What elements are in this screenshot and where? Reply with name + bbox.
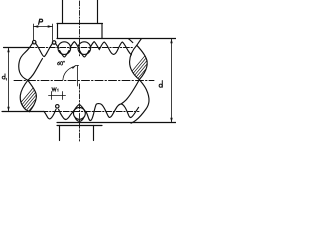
60-degree arc arrowhead (72, 66, 76, 69)
crest cap circle (x=54) (52, 41, 56, 45)
d arrows (170, 39, 172, 123)
lower ball (74, 108, 86, 120)
screw axis (dash-dot) (14, 80, 154, 82)
d dimension line (right) (171, 39, 173, 123)
right rib section: edge B (from bore line through lens left side and down to lower crest) (121, 39, 141, 104)
bottom return-channel stub: shoulder (57, 125, 102, 127)
nut crest over lower ball (73, 104, 86, 112)
W1 dimension line (49, 95, 66, 97)
groove arc under ball 1 (60, 51, 70, 57)
top return-channel stub: wide right wall (101, 24, 103, 39)
top return-channel stub: narrow left wall (62, 0, 64, 24)
lower ball vertical centerline (79, 84, 81, 141)
bottom return-channel stub: right leg (93, 126, 95, 141)
label P (39, 19, 43, 24)
label 60 degrees (57, 62, 59, 65)
lower thread wave (44, 104, 139, 121)
right rib section: edge A (from bore line through lens right side and down as bulge to bottom line) (128, 39, 149, 124)
lower crest cap circle (x=57.3) (56, 105, 60, 109)
label d1 (left) (2, 74, 6, 80)
minor-diameter extension line top left (y=47) (4, 47, 31, 49)
P dimension: left extension (33, 24, 35, 40)
top return-channel stub: wide left wall (57, 24, 59, 39)
label d (right) (159, 81, 162, 88)
left rib section: outer edge (from crest through axis to lens right side) (28, 80, 37, 111)
left rib hatching (2, 75, 80, 125)
W1 dimension: right bar (62, 92, 64, 100)
60-degree angle: arc (63, 66, 75, 80)
bottom return-channel stub: left leg (59, 126, 61, 141)
groove arc under ball 2 (80, 51, 90, 57)
groove arc under lower ball (75, 117, 84, 121)
60-degree angle: vertical side (77, 66, 79, 87)
60-degree angle: top tick (75, 65, 79, 67)
d1 dimension line (left) (8, 48, 10, 112)
upper thread wave left of stub (19, 42, 132, 81)
W1 dimension: left bar (51, 92, 53, 100)
upper ball 1 (58, 42, 71, 55)
nut bore crest line (top, y=38) (57, 38, 176, 40)
upper pitch line (dash-dot) (28, 47, 134, 49)
crest cap circle (x=34) (32, 40, 36, 44)
nut bore line bottom (y=123.2) (57, 122, 176, 124)
P dimension arrows (34, 25, 53, 27)
left rib section: inner edge (from trough to lens left side) (20, 59, 42, 112)
top return-channel stub: narrow right wall (97, 0, 99, 24)
label W1 (52, 88, 56, 91)
P dimension line (34, 26, 53, 28)
stub vertical centerline (dash-dot) (79, 1, 81, 57)
top return-channel stub: shoulder (57, 23, 103, 25)
right rib hatching (112, 45, 193, 95)
P dimension: right extension (52, 24, 54, 41)
minor-diameter extension line bottom left (y=111.4) (2, 111, 44, 113)
upper ball 2 (78, 42, 91, 55)
lower pitch line (dash-dot) (42, 111, 139, 113)
d1 arrows (7, 48, 9, 112)
